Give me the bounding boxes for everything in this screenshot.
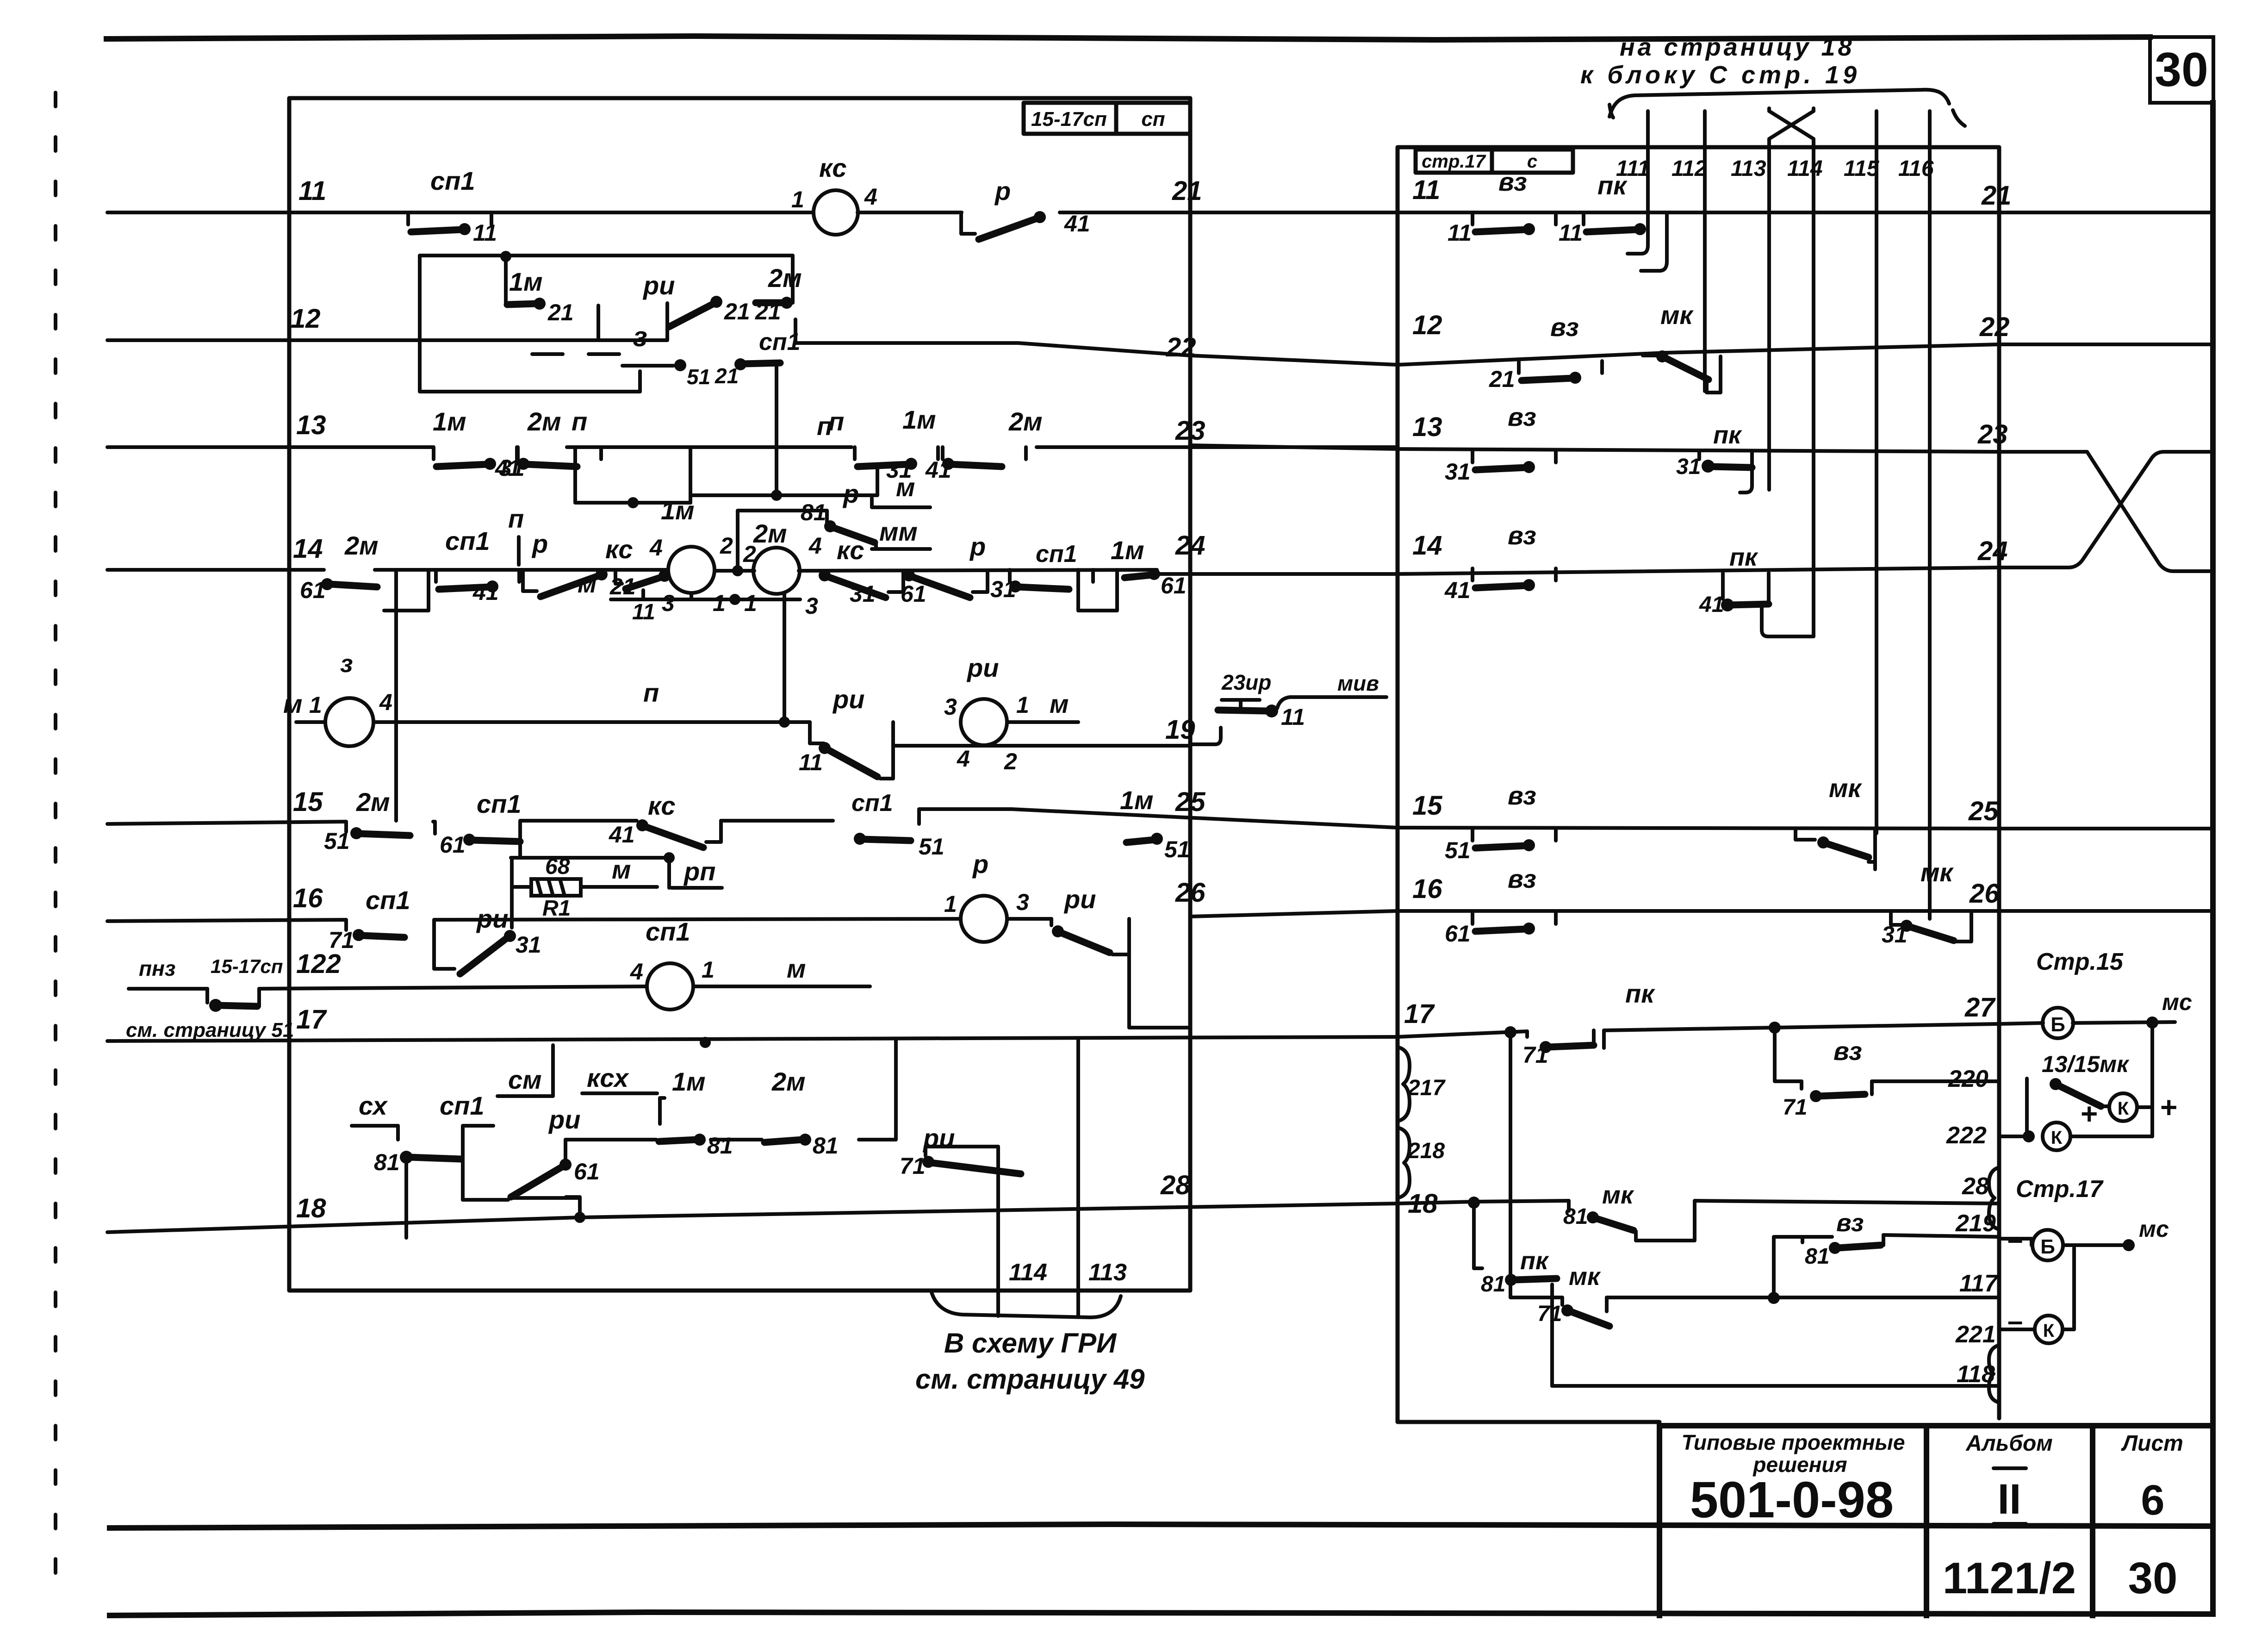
svg-text:Альбом: Альбом (1965, 1431, 2053, 1456)
svg-text:25: 25 (1968, 796, 1999, 826)
node junction row12 rect top (500, 251, 511, 262)
bus 16 (107, 919, 1051, 930)
svg-text:23ир: 23ир (1221, 670, 1271, 694)
svg-text:п: п (508, 504, 524, 533)
svg-text:р: р (531, 529, 548, 558)
bus 28 inside С (1398, 1201, 1999, 1203)
svg-text:ри: ри (832, 685, 864, 714)
svg-text:з: з (633, 321, 647, 352)
svg-text:1м: 1м (661, 496, 695, 525)
bus 21 right margin (1999, 211, 2213, 214)
SECTION:TITLE (1659, 1426, 2213, 1615)
svg-text:ксх: ксх (587, 1063, 630, 1092)
wire bus19 hook (1190, 728, 1221, 744)
svg-text:4: 4 (808, 533, 822, 559)
svg-text:1: 1 (1016, 692, 1029, 718)
bus 11 (107, 211, 814, 214)
node junction З row (779, 717, 790, 728)
svg-text:к блоку С стр. 19: к блоку С стр. 19 (1580, 61, 1860, 89)
svg-text:сп1: сп1 (851, 790, 893, 817)
contact 1М 41 (row 13) (434, 447, 517, 470)
svg-text:221: 221 (1955, 1321, 1996, 1348)
bracket к блоку С (1609, 90, 1965, 126)
svg-text:11: 11 (632, 600, 655, 624)
svg-text:15-17сп: 15-17сп (211, 955, 283, 977)
lamp К upper (row 220 branch) (2109, 1093, 2137, 1121)
svg-text:21: 21 (724, 299, 750, 324)
contact РИ 21 (row 12) (669, 304, 714, 327)
svg-text:22: 22 (1166, 332, 1196, 362)
bus 18 (107, 1203, 1398, 1232)
SECTION:CBOX (1166, 33, 1999, 1422)
svg-text:114: 114 (1787, 156, 1823, 181)
wire ПК drop to 118 (1550, 1285, 1554, 1386)
wire row16 drop to bus 27 (1129, 954, 1190, 1028)
svg-text:61: 61 (1161, 573, 1187, 599)
svg-text:сп1: сп1 (1036, 541, 1077, 567)
svg-text:11: 11 (1281, 704, 1305, 730)
svg-text:19: 19 (1165, 715, 1195, 745)
svg-text:р: р (969, 532, 986, 561)
wire row12 rectangle top (420, 254, 793, 257)
svg-text:1м: 1м (902, 405, 936, 434)
bus 14 (107, 568, 324, 572)
node junction row28 (1468, 1197, 1480, 1209)
contact РИ 11 (З row) (810, 722, 824, 743)
svg-text:вз: вз (1508, 781, 1536, 810)
svg-text:17: 17 (1404, 999, 1435, 1029)
bus 24 inside С (1398, 567, 1999, 574)
contact СП1 51 21 (row 12 lower) (622, 364, 673, 368)
svg-text:17: 17 (296, 1004, 327, 1035)
bus 13 (107, 445, 433, 449)
contact Р 61 (row 14 right) (903, 569, 988, 598)
svg-text:23: 23 (1175, 416, 1205, 446)
svg-text:сп1: сп1 (445, 526, 490, 555)
svg-text:2: 2 (720, 533, 733, 559)
svg-text:ри: ри (476, 904, 508, 933)
svg-text:кс: кс (648, 791, 676, 820)
wire СП1-РИ step (СХ row) (463, 1126, 493, 1200)
sheet number box 30 (2150, 37, 2213, 103)
svg-text:см: см (508, 1065, 542, 1094)
svg-text:2: 2 (743, 541, 756, 567)
svg-text:61: 61 (300, 577, 326, 603)
svg-text:сх: сх (359, 1091, 388, 1120)
svg-text:мс: мс (2139, 1216, 2169, 1242)
svg-text:23: 23 (1977, 419, 2008, 449)
svg-text:81: 81 (801, 499, 826, 525)
svg-text:18: 18 (296, 1193, 326, 1223)
svg-text:м: м (283, 689, 302, 718)
svg-text:28: 28 (1160, 1170, 1191, 1200)
svg-text:11: 11 (473, 220, 497, 246)
contact 13/15МК (К branch) (2025, 1079, 2029, 1136)
svg-text:222: 222 (1946, 1122, 1987, 1149)
svg-text:1: 1 (309, 692, 322, 718)
SECTION:MID (1190, 670, 1386, 744)
bus 27 right margin (1999, 1023, 2043, 1024)
contact СП1 81 (СХ row) (396, 1126, 400, 1140)
svg-text:п: п (572, 407, 587, 436)
svg-text:81: 81 (1481, 1272, 1505, 1297)
relay coil 1М (row 14) (668, 547, 715, 593)
bus 12 (107, 303, 667, 340)
svg-text:26: 26 (1175, 878, 1205, 908)
wire МС drop (2150, 1023, 2154, 1136)
wire line 114 (left box) (996, 1147, 1000, 1316)
svg-text:113: 113 (1731, 156, 1766, 181)
wire row 222 (1999, 1135, 2029, 1138)
sheet top border (106, 36, 2150, 40)
svg-text:71: 71 (900, 1153, 926, 1179)
wire М lead of resistor (512, 885, 657, 889)
svg-text:мм: мм (879, 517, 918, 546)
svg-text:21: 21 (1489, 366, 1515, 392)
svg-text:Типовые проектные: Типовые проектные (1682, 1430, 1905, 1454)
title block outline (1659, 1426, 2213, 1615)
bus 19 under РИ coil (893, 744, 1190, 748)
svg-text:1: 1 (744, 590, 757, 616)
svg-text:3: 3 (805, 593, 818, 619)
svg-text:3: 3 (944, 694, 957, 720)
svg-text:1м: 1м (509, 267, 543, 296)
svg-text:стр.17: стр.17 (1422, 151, 1486, 172)
svg-text:61: 61 (440, 832, 466, 858)
svg-text:вз: вз (1836, 1209, 1864, 1237)
svg-text:Б: Б (2051, 1013, 2065, 1036)
svg-text:4: 4 (864, 184, 877, 210)
node junction row18 (574, 1212, 585, 1223)
brace 221-118 on spine (1989, 1345, 1999, 1403)
svg-text:1: 1 (791, 187, 804, 212)
svg-text:118: 118 (1957, 1361, 1995, 1388)
contact РИ 61 (СХ row) (494, 1198, 580, 1200)
wire line 116 (1928, 111, 1932, 919)
svg-text:218: 218 (1407, 1139, 1445, 1163)
node junction row17 (700, 1037, 711, 1048)
svg-text:мк: мк (1660, 300, 1694, 330)
svg-text:4: 4 (649, 535, 663, 561)
sheet bottom border line 2 (110, 1612, 2213, 1615)
svg-text:пк: пк (1520, 1247, 1549, 1275)
svg-text:сп1: сп1 (430, 166, 475, 195)
bus 17 (107, 1037, 1398, 1041)
svg-text:21: 21 (1172, 176, 1202, 206)
svg-text:Стр.17: Стр.17 (2016, 1176, 2104, 1203)
wire line 111 (1628, 111, 1648, 254)
svg-text:с: с (1527, 151, 1537, 172)
svg-text:11: 11 (298, 176, 326, 206)
svg-text:мк: мк (1829, 773, 1862, 803)
svg-text:р: р (972, 849, 988, 879)
svg-text:см. страницу 51: см. страницу 51 (126, 1019, 294, 1041)
svg-text:мс: мс (2162, 989, 2192, 1015)
svg-text:2м: 2м (753, 519, 787, 548)
bus 26 right margin (1999, 909, 2213, 913)
svg-text:217: 217 (1407, 1076, 1446, 1100)
svg-text:R1: R1 (542, 896, 571, 921)
svg-text:31: 31 (990, 576, 1016, 602)
svg-text:81: 81 (374, 1149, 400, 1175)
svg-text:51: 51 (1445, 837, 1471, 863)
svg-text:мк: мк (1602, 1181, 1634, 1209)
bus 27 inside С (1398, 1031, 1527, 1037)
svg-text:220: 220 (1948, 1066, 1988, 1092)
contact Р 21 (row 14) (523, 568, 608, 597)
contact Р 81 М ММ selector (824, 520, 836, 532)
relay coil 2М (row 14) (753, 548, 800, 594)
svg-text:30: 30 (2155, 43, 2208, 97)
svg-text:31: 31 (516, 932, 541, 958)
wire З row (296, 720, 325, 724)
svg-text:м: м (787, 954, 806, 983)
row 118 (1552, 1384, 1999, 1388)
SECTION:LEFTBOX (107, 98, 1398, 1395)
svg-text:27: 27 (1964, 992, 1996, 1023)
node junction row 117 (1768, 1292, 1780, 1304)
svg-text:24: 24 (1175, 530, 1205, 561)
bus 25 right margin (1999, 827, 2213, 830)
wire row 220 (1775, 1028, 1802, 1081)
svg-text:51: 51 (1164, 836, 1190, 862)
wire ВЗ left lead down to 117 (1772, 1248, 1776, 1299)
svg-text:41: 41 (609, 822, 635, 848)
svg-text:К: К (2118, 1098, 2129, 1119)
svg-text:пнз: пнз (139, 956, 175, 980)
svg-text:п: п (643, 678, 659, 707)
svg-text:61: 61 (1445, 921, 1471, 947)
svg-text:3: 3 (662, 590, 675, 616)
svg-text:вз: вз (1550, 312, 1579, 342)
row 219 (1774, 1237, 1832, 1248)
svg-text:51: 51 (687, 365, 710, 389)
svg-text:21: 21 (547, 299, 574, 325)
wire line 112 (1703, 111, 1707, 391)
svg-text:кс: кс (819, 153, 847, 182)
wire РИ step to coil (880, 722, 893, 779)
svg-text:81: 81 (1805, 1244, 1829, 1269)
svg-text:81: 81 (707, 1133, 733, 1159)
svg-text:1: 1 (713, 590, 726, 616)
bus 22 right margin (1999, 343, 2213, 346)
wire line 113 with top crossing (1769, 111, 1814, 490)
svg-text:В схему ГРИ: В схему ГРИ (944, 1328, 1117, 1359)
svg-text:2: 2 (1004, 748, 1017, 774)
svg-text:Стр.15: Стр.15 (2036, 948, 2124, 975)
svg-text:16: 16 (1412, 874, 1442, 904)
svg-text:пк: пк (1625, 979, 1655, 1008)
wire СХ net drop to bus18 (566, 1197, 580, 1217)
svg-text:11: 11 (1448, 220, 1472, 246)
relay coil Р (row 16) (961, 896, 1007, 942)
svg-text:1: 1 (702, 957, 715, 983)
svg-text:13: 13 (1412, 412, 1442, 442)
wire line 115 (1875, 111, 1878, 833)
svg-text:ри: ри (642, 271, 675, 300)
svg-text:сп1: сп1 (477, 789, 522, 818)
wire row16 РИ step return (1112, 919, 1129, 954)
svg-text:51: 51 (324, 828, 350, 854)
svg-text:11: 11 (799, 749, 823, 775)
svg-text:1м: 1м (672, 1067, 706, 1096)
wire row21 J-hook (1641, 224, 1667, 271)
svg-text:26: 26 (1969, 879, 2000, 909)
wire row14 П-link bracket (384, 570, 429, 611)
relay coil З (row МИВ) (325, 698, 373, 746)
block box 15-17СП outline (289, 98, 1190, 1291)
svg-text:41: 41 (472, 579, 499, 605)
svg-text:31: 31 (1882, 922, 1908, 948)
contact РИ 31 (row 16) (434, 928, 454, 969)
contact 1М 21 (row 12) (504, 256, 508, 303)
svg-text:+: + (2081, 1097, 2098, 1130)
svg-text:п: п (817, 412, 833, 441)
svg-text:116: 116 (1898, 156, 1934, 181)
wire 217 218 brace marks on С box edge (1398, 1047, 1410, 1121)
contact ВЗ 41 (row 24) (1473, 568, 1556, 591)
bracket В схему ГРИ (931, 1291, 1121, 1317)
svg-text:мив: мив (1337, 671, 1379, 695)
svg-text:6: 6 (2141, 1477, 2164, 1524)
contact ПК 11 (row 21) (1584, 212, 1667, 235)
svg-text:на страницу 18: на страницу 18 (1620, 33, 1855, 61)
node junction 2-pin (row 14) (732, 565, 743, 576)
contact 2М 31 (row 13) (517, 447, 601, 470)
svg-text:3: 3 (1016, 889, 1029, 915)
svg-text:р: р (994, 176, 1011, 206)
svg-text:15-17сп: 15-17сп (1031, 108, 1107, 131)
svg-text:14: 14 (293, 534, 323, 564)
wire row12 rectangle left (420, 256, 640, 392)
svg-text:71: 71 (1522, 1042, 1548, 1068)
block box С outline (1398, 147, 1999, 1422)
svg-text:41: 41 (1064, 211, 1090, 237)
svg-text:рп: рп (683, 857, 715, 886)
wire row12 exit to bus 22 (795, 319, 1190, 355)
svg-text:м: м (1050, 689, 1069, 718)
wire М stub (872, 498, 930, 507)
contact ПНЗ (row 122) (205, 989, 209, 1003)
svg-text:1м: 1м (1111, 536, 1144, 565)
relay coil СП1 (row 122) (647, 963, 693, 1010)
svg-text:м: м (612, 855, 631, 884)
svg-text:пк: пк (1729, 543, 1758, 571)
label box divider (1114, 103, 1118, 134)
svg-text:112: 112 (1671, 156, 1707, 181)
svg-text:сп1: сп1 (440, 1091, 485, 1120)
SECTION:RIGHT (1775, 181, 2213, 1403)
svg-text:К: К (2043, 1321, 2055, 1341)
svg-text:1м: 1м (433, 407, 466, 436)
svg-text:41: 41 (1444, 577, 1471, 603)
svg-text:1: 1 (944, 891, 957, 917)
svg-text:31: 31 (850, 581, 876, 607)
svg-text:1121/2: 1121/2 (1943, 1553, 2076, 1603)
sheet right border (2210, 103, 2216, 1614)
bus 21 inside С (1398, 211, 1999, 214)
label box 15-17СП / СП (1024, 103, 1190, 134)
wire РИ to М (1007, 720, 1078, 724)
svg-text:71: 71 (1537, 1302, 1562, 1326)
bus 25 inside С (1398, 828, 1999, 829)
svg-text:31: 31 (1445, 459, 1471, 485)
wire R1 riser (510, 858, 514, 928)
wire П riser to row14 bracket (394, 611, 398, 821)
contact КС 11 (row 14 left) (615, 570, 622, 584)
svg-text:12: 12 (1412, 310, 1442, 340)
bus 23 right margin with crossover (1999, 452, 2213, 571)
svg-text:2м: 2м (771, 1067, 806, 1096)
wire К branch vertical (2072, 1248, 2076, 1329)
wire row28 drop to ПК (1474, 1203, 1482, 1268)
svg-text:15: 15 (1412, 791, 1442, 821)
svg-text:вз: вз (1508, 521, 1536, 550)
svg-text:51: 51 (919, 834, 944, 860)
svg-text:31: 31 (1676, 455, 1701, 479)
node МС junction (row 27) (2146, 1016, 2158, 1029)
resistor R1 (531, 879, 581, 896)
svg-text:24: 24 (1977, 536, 2008, 566)
bus 122 (129, 987, 207, 991)
svg-text:К: К (2051, 1128, 2063, 1148)
svg-text:2м: 2м (344, 531, 379, 560)
sheet left perforation dashed line (54, 93, 57, 1602)
svg-text:219: 219 (1955, 1210, 1996, 1237)
node junction row27 right (1769, 1022, 1781, 1034)
svg-text:кс: кс (605, 535, 633, 564)
lamp Б (row 27) (2043, 1008, 2073, 1038)
relay coil КС (row 11) (814, 190, 858, 235)
svg-text:см. страницу 49: см. страницу 49 (915, 1364, 1145, 1395)
contact ВЗ 31 (row 23) (1473, 450, 1556, 473)
sheet bottom border line 1 (110, 1524, 2213, 1528)
svg-text:вз: вз (1833, 1036, 1862, 1066)
svg-text:мк: мк (1920, 858, 1954, 887)
node junction row13 bracket (628, 497, 639, 508)
svg-text:II: II (1997, 1476, 2021, 1523)
svg-text:4: 4 (630, 959, 643, 985)
svg-text:з: з (340, 650, 353, 678)
svg-text:114: 114 (1009, 1259, 1047, 1286)
svg-text:15: 15 (293, 787, 323, 817)
svg-text:41: 41 (925, 457, 951, 483)
svg-text:+: + (2160, 1091, 2177, 1124)
bus 24 right margin with crossover (1999, 452, 2213, 567)
svg-text:2м: 2м (768, 263, 802, 293)
svg-text:41: 41 (1699, 592, 1724, 617)
svg-text:13: 13 (296, 410, 326, 440)
wire line 113 (left box) (1076, 1040, 1080, 1316)
node junction row27 left (1504, 1026, 1516, 1038)
svg-text:22: 22 (1979, 312, 2010, 342)
svg-text:61: 61 (574, 1159, 600, 1185)
wire row13 lower bracket (575, 447, 690, 503)
svg-text:61: 61 (901, 581, 926, 607)
contact КС 41 (row 15) (636, 819, 721, 848)
svg-text:2м: 2м (356, 787, 390, 817)
contact КС 31 (row 14 right) (819, 569, 903, 598)
svg-text:ри: ри (548, 1105, 580, 1134)
svg-text:вз: вз (1508, 864, 1536, 893)
svg-text:пк: пк (1597, 171, 1628, 200)
push-button 23ИР (МИВ row) (1222, 700, 1260, 710)
wire line 114 with top crossing (1769, 108, 1814, 636)
wire СП1 drop to З row (775, 367, 778, 495)
relay coil РИ (З row) (961, 699, 1007, 745)
svg-text:81: 81 (813, 1133, 839, 1159)
bus 15 (107, 809, 1398, 842)
